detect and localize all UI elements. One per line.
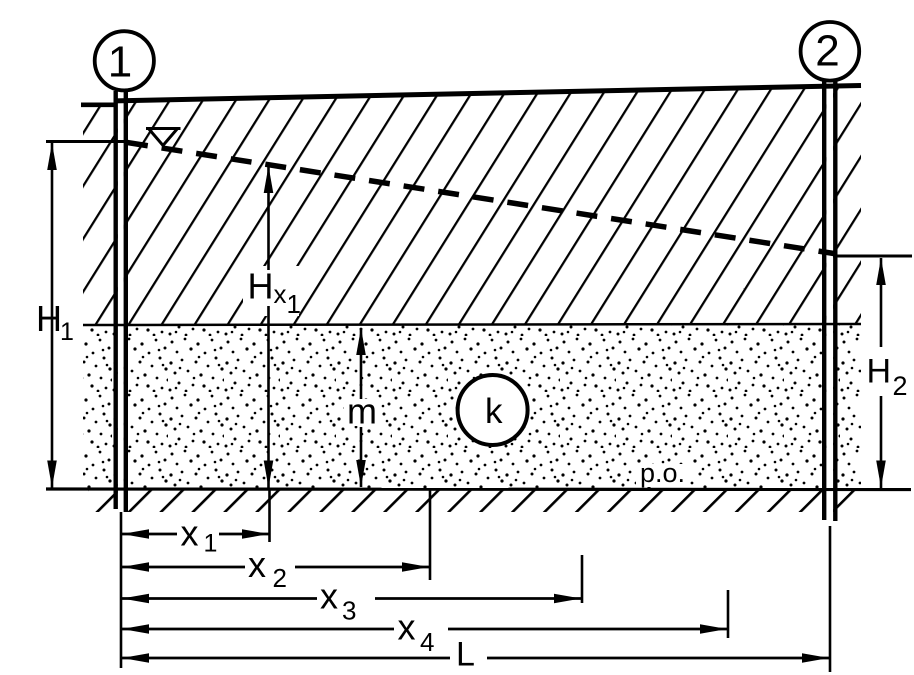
hatched upper soil region — [83, 86, 861, 326]
svg-text:H: H — [248, 266, 274, 307]
Hx1 dimension line — [243, 266, 299, 316]
impermeable base line p.o. — [46, 487, 911, 491]
ground surface line — [81, 103, 116, 108]
extension line x4 — [727, 590, 730, 638]
extension line x3 — [581, 555, 584, 603]
svg-text:x: x — [248, 544, 266, 585]
dimension x1 — [121, 533, 269, 536]
label p.o. — [636, 464, 688, 487]
svg-text:x: x — [320, 576, 338, 617]
well 2 — [822, 81, 826, 520]
svg-text:1: 1 — [204, 530, 218, 558]
extension line x2 — [429, 490, 432, 580]
svg-text:L: L — [456, 636, 475, 674]
svg-text:3: 3 — [342, 596, 356, 626]
H1 reference line — [46, 140, 128, 143]
aquifer top interface line — [83, 324, 861, 325]
H1 dimension line — [51, 143, 54, 488]
dimension x2 — [121, 566, 429, 569]
svg-text:H: H — [867, 353, 892, 391]
svg-text:2: 2 — [815, 27, 839, 76]
H2 reference line — [833, 255, 912, 258]
svg-text:4: 4 — [420, 627, 434, 657]
ground hatching below base — [88, 491, 861, 513]
dimension x3 — [121, 597, 581, 600]
well 2 interior — [826, 81, 833, 522]
svg-text:1: 1 — [60, 318, 74, 346]
stippled aquifer region — [83, 325, 861, 489]
svg-text:m: m — [347, 391, 377, 432]
svg-text:x: x — [274, 279, 287, 309]
dashed water table line — [127, 143, 837, 255]
k circle — [458, 375, 528, 445]
dimension x4 — [121, 628, 727, 631]
svg-text:k: k — [485, 392, 503, 431]
m dimension line — [344, 399, 378, 426]
water table symbol — [146, 129, 181, 146]
left extension line — [120, 512, 123, 668]
circle label 1 — [95, 31, 154, 90]
svg-text:H: H — [36, 298, 62, 339]
svg-text:2: 2 — [273, 563, 287, 593]
extension line x1 — [268, 490, 271, 542]
svg-text:2: 2 — [893, 371, 908, 401]
svg-text:x: x — [181, 512, 199, 553]
well 1 interior — [118, 91, 124, 511]
dimension L — [121, 657, 829, 660]
circle label 2 — [801, 22, 860, 81]
svg-text:1: 1 — [287, 289, 301, 319]
H2 dimension line — [880, 258, 883, 347]
svg-text:x: x — [398, 607, 416, 648]
right extension line — [829, 526, 832, 672]
svg-text:p.o.: p.o. — [640, 458, 685, 488]
well 1 — [113, 91, 117, 509]
svg-text:1: 1 — [108, 38, 132, 87]
